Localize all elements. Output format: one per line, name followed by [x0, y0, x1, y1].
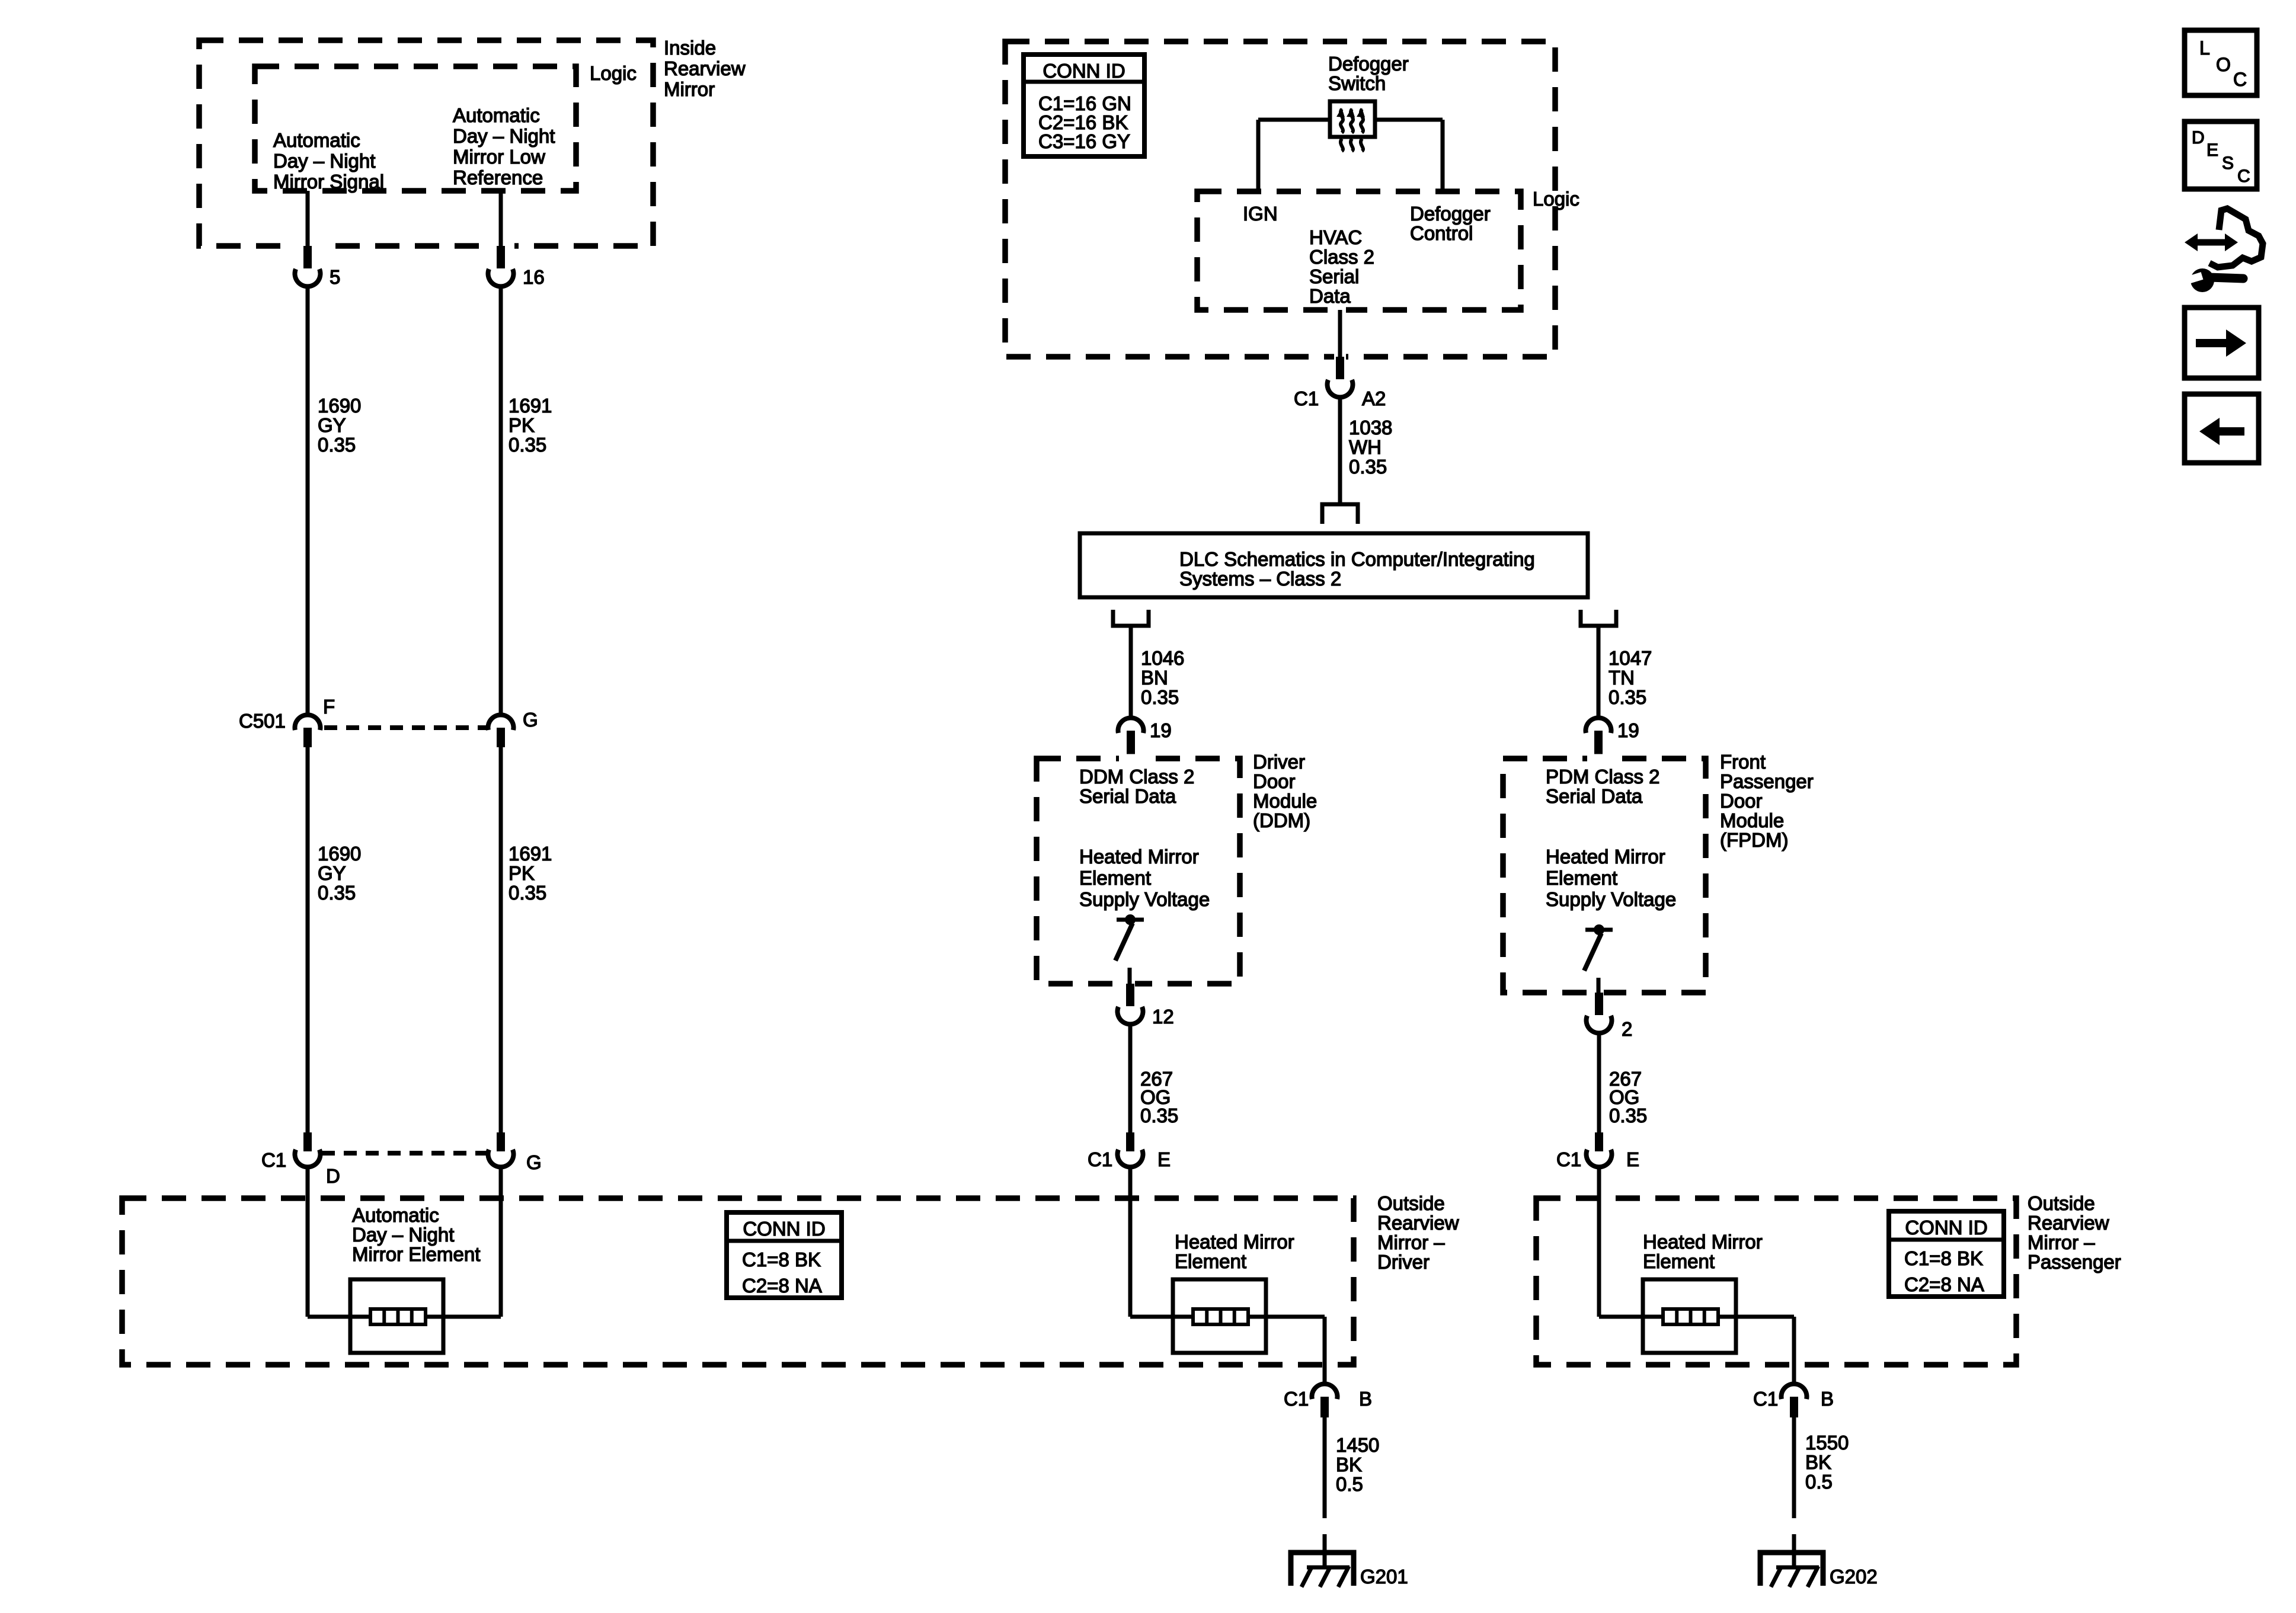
- svg-text:Module: Module: [1253, 790, 1317, 812]
- svg-text:C: C: [2237, 167, 2250, 186]
- svg-text:WH: WH: [1349, 436, 1382, 458]
- svg-text:G201: G201: [1360, 1566, 1408, 1588]
- svg-text:B: B: [1359, 1388, 1372, 1410]
- svg-text:Defogger: Defogger: [1410, 203, 1491, 225]
- svg-text:16: 16: [523, 266, 545, 288]
- svg-text:C2=8 NA: C2=8 NA: [1904, 1273, 1984, 1295]
- svg-text:Mirror Signal: Mirror Signal: [273, 171, 384, 193]
- svg-text:A2: A2: [1362, 388, 1386, 409]
- svg-text:Outside: Outside: [1377, 1192, 1445, 1214]
- svg-text:Class 2: Class 2: [1309, 246, 1374, 268]
- svg-text:C1: C1: [1088, 1148, 1112, 1170]
- svg-text:Mirror Low: Mirror Low: [453, 146, 545, 168]
- svg-text:C501: C501: [239, 710, 286, 732]
- svg-text:Element: Element: [1079, 867, 1151, 889]
- svg-text:0.35: 0.35: [509, 882, 546, 904]
- svg-text:Automatic: Automatic: [352, 1204, 439, 1226]
- svg-text:Automatic: Automatic: [273, 129, 360, 151]
- svg-text:2: 2: [1622, 1018, 1632, 1040]
- svg-text:Heated Mirror: Heated Mirror: [1546, 846, 1665, 868]
- svg-text:E: E: [2207, 140, 2218, 160]
- svg-text:C3=16 GY: C3=16 GY: [1038, 130, 1130, 152]
- svg-text:12: 12: [1152, 1006, 1174, 1028]
- svg-text:PK: PK: [509, 862, 535, 884]
- svg-text:0.35: 0.35: [1609, 1105, 1647, 1126]
- svg-text:C2=8 NA: C2=8 NA: [742, 1275, 822, 1297]
- svg-text:Reference: Reference: [453, 167, 543, 188]
- svg-text:F: F: [323, 696, 335, 718]
- svg-text:Day – Night: Day – Night: [453, 125, 555, 147]
- svg-text:0.35: 0.35: [1140, 1105, 1178, 1126]
- svg-text:Driver: Driver: [1253, 751, 1305, 773]
- svg-text:C1: C1: [1556, 1148, 1581, 1170]
- svg-text:1047: 1047: [1609, 647, 1652, 669]
- svg-text:1038: 1038: [1349, 417, 1392, 439]
- svg-text:C1=8 BK: C1=8 BK: [1904, 1247, 1983, 1269]
- svg-text:Control: Control: [1410, 222, 1473, 244]
- svg-text:19: 19: [1150, 719, 1172, 741]
- svg-text:Driver: Driver: [1377, 1251, 1430, 1273]
- svg-text:0.35: 0.35: [1141, 686, 1179, 708]
- svg-text:Mirror: Mirror: [664, 78, 715, 100]
- svg-text:C1: C1: [1753, 1388, 1778, 1410]
- svg-text:G202: G202: [1830, 1566, 1878, 1588]
- svg-text:5: 5: [330, 266, 340, 288]
- svg-text:Supply Voltage: Supply Voltage: [1546, 888, 1676, 910]
- svg-text:Day – Night: Day – Night: [352, 1224, 454, 1246]
- svg-text:1046: 1046: [1141, 647, 1184, 669]
- svg-text:DLC Schematics in Computer/Int: DLC Schematics in Computer/Integrating: [1179, 548, 1535, 570]
- svg-text:TN: TN: [1609, 667, 1635, 689]
- svg-text:D: D: [326, 1165, 340, 1187]
- svg-text:Element: Element: [1643, 1250, 1715, 1272]
- svg-text:Element: Element: [1546, 867, 1617, 889]
- svg-text:HVAC: HVAC: [1309, 226, 1362, 248]
- svg-text:0.35: 0.35: [1609, 686, 1646, 708]
- svg-text:E: E: [1157, 1148, 1171, 1170]
- svg-text:DDM Class 2: DDM Class 2: [1079, 766, 1194, 788]
- svg-text:CONN ID: CONN ID: [1905, 1217, 1987, 1238]
- svg-text:C1: C1: [1284, 1388, 1309, 1410]
- svg-text:Defogger: Defogger: [1328, 53, 1409, 75]
- svg-text:Automatic: Automatic: [453, 104, 540, 126]
- svg-text:G: G: [526, 1151, 542, 1173]
- svg-text:(DDM): (DDM): [1253, 809, 1310, 831]
- svg-text:Serial Data: Serial Data: [1079, 785, 1176, 807]
- svg-text:Mirror –: Mirror –: [2028, 1231, 2095, 1253]
- svg-text:Serial Data: Serial Data: [1546, 785, 1643, 807]
- svg-text:1691: 1691: [509, 395, 552, 417]
- svg-text:PK: PK: [509, 414, 535, 436]
- svg-text:Rearview: Rearview: [1377, 1212, 1459, 1234]
- svg-text:C: C: [2233, 69, 2247, 90]
- svg-text:E: E: [1626, 1148, 1639, 1170]
- svg-text:S: S: [2222, 153, 2234, 173]
- svg-text:Switch: Switch: [1328, 72, 1386, 94]
- svg-text:0.35: 0.35: [318, 882, 356, 904]
- svg-text:Element: Element: [1175, 1250, 1246, 1272]
- svg-text:O: O: [2216, 54, 2231, 75]
- svg-text:Mirror –: Mirror –: [1377, 1231, 1445, 1253]
- svg-text:C1=8 BK: C1=8 BK: [742, 1249, 821, 1270]
- svg-text:1450: 1450: [1336, 1434, 1379, 1456]
- svg-text:B: B: [1821, 1388, 1834, 1410]
- svg-text:Door: Door: [1720, 790, 1763, 812]
- svg-text:Systems – Class 2: Systems – Class 2: [1179, 568, 1341, 590]
- svg-text:Front: Front: [1720, 751, 1766, 773]
- svg-text:0.5: 0.5: [1805, 1471, 1833, 1493]
- svg-text:Day – Night: Day – Night: [273, 150, 375, 172]
- svg-text:PDM Class 2: PDM Class 2: [1546, 766, 1660, 788]
- svg-text:GY: GY: [318, 862, 346, 884]
- svg-text:Inside: Inside: [664, 37, 716, 59]
- svg-text:0.35: 0.35: [318, 434, 356, 456]
- svg-text:19: 19: [1617, 719, 1639, 741]
- svg-text:CONN ID: CONN ID: [1043, 60, 1125, 82]
- svg-text:Mirror Element: Mirror Element: [352, 1243, 480, 1265]
- svg-text:Data: Data: [1309, 285, 1351, 307]
- svg-text:Outside: Outside: [2028, 1192, 2095, 1214]
- svg-text:IGN: IGN: [1243, 203, 1278, 225]
- svg-text:L: L: [2199, 37, 2210, 59]
- svg-text:D: D: [2192, 128, 2205, 148]
- svg-text:Heated Mirror: Heated Mirror: [1079, 846, 1199, 868]
- svg-text:G: G: [523, 709, 538, 731]
- svg-text:0.35: 0.35: [509, 434, 546, 456]
- svg-text:1690: 1690: [318, 843, 361, 865]
- svg-text:Passenger: Passenger: [2028, 1251, 2121, 1273]
- svg-text:BK: BK: [1336, 1454, 1362, 1476]
- svg-text:BN: BN: [1141, 667, 1168, 689]
- svg-text:0.35: 0.35: [1349, 456, 1387, 478]
- svg-text:BK: BK: [1805, 1451, 1831, 1473]
- svg-text:CONN ID: CONN ID: [743, 1218, 825, 1240]
- svg-text:Rearview: Rearview: [2028, 1212, 2109, 1234]
- svg-text:1550: 1550: [1805, 1432, 1849, 1454]
- svg-text:Rearview: Rearview: [664, 57, 746, 79]
- svg-text:Logic: Logic: [1533, 188, 1579, 210]
- svg-text:Serial: Serial: [1309, 265, 1359, 287]
- svg-text:Logic: Logic: [590, 62, 637, 84]
- svg-text:C1: C1: [261, 1149, 286, 1171]
- svg-text:Supply Voltage: Supply Voltage: [1079, 888, 1210, 910]
- svg-text:1690: 1690: [318, 395, 361, 417]
- svg-text:Passenger: Passenger: [1720, 770, 1814, 792]
- svg-text:Module: Module: [1720, 809, 1784, 831]
- svg-text:C1: C1: [1294, 388, 1319, 409]
- svg-text:Heated Mirror: Heated Mirror: [1643, 1231, 1763, 1253]
- svg-text:(FPDM): (FPDM): [1720, 829, 1788, 851]
- svg-text:Heated Mirror: Heated Mirror: [1175, 1231, 1294, 1253]
- svg-text:GY: GY: [318, 414, 346, 436]
- svg-text:1691: 1691: [509, 843, 552, 865]
- svg-text:Door: Door: [1253, 770, 1296, 792]
- svg-text:0.5: 0.5: [1336, 1473, 1363, 1495]
